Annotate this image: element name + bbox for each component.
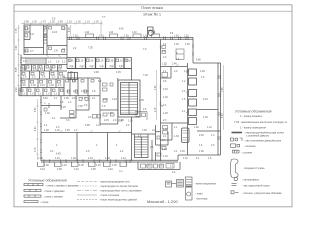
- block mid small cells: [44, 33, 48, 35]
- right wing lower walls: [161, 122, 188, 124]
- svg-text:1.30: 1.30: [38, 157, 43, 160]
- band3 walls: [21, 78, 64, 80]
- svg-text:- как отделочный порог: - как отделочный порог: [242, 184, 270, 188]
- right wing closet column wall: [187, 63, 189, 155]
- svg-text:1.30: 1.30: [109, 60, 114, 63]
- right wing stair glyph: [182, 128, 190, 143]
- svg-text:1.10: 1.10: [99, 35, 104, 37]
- tall stair symbol: [186, 177, 193, 200]
- dimension texts above facade: [73, 29, 189, 38]
- wall symbols column: [24, 184, 43, 203]
- hall top facade wall: [67, 37, 193, 39]
- left wing outer wall: [20, 55, 22, 96]
- svg-text:14.6: 14.6: [203, 98, 208, 101]
- bottom stair2: [135, 137, 149, 158]
- svg-text:- стена: - стена: [40, 201, 49, 204]
- window ticks left walls: [20, 46, 161, 153]
- svg-text:7.03 - максимальные жилетные п: 7.03 - максимальные жилетные площади, м: [234, 120, 287, 124]
- svg-text:2.30: 2.30: [78, 105, 83, 108]
- closet boxes: [189, 69, 197, 76]
- svg-text:1.48: 1.48: [200, 70, 205, 73]
- svg-text:3.20: 3.20: [155, 85, 157, 90]
- svg-text:2.15: 2.15: [155, 107, 157, 112]
- svg-text:1.30: 1.30: [44, 164, 49, 167]
- mid band dividers: [66, 55, 68, 69]
- svg-text:- ступени: - ступени: [241, 152, 253, 155]
- svg-text:1.30: 1.30: [105, 157, 110, 160]
- svg-text:1.10: 1.10: [163, 155, 168, 158]
- svg-text:1.30: 1.30: [124, 35, 129, 37]
- svg-text:1.10: 1.10: [109, 32, 114, 34]
- door swing marks: [46, 55, 189, 133]
- svg-text:2.95: 2.95: [24, 21, 29, 24]
- svg-text:Масштаб - 1:200: Масштаб - 1:200: [147, 199, 178, 204]
- block left small rooms: [29, 25, 31, 40]
- dims below bottom wall: [38, 153, 126, 174]
- lower-left wing left wall: [40, 96, 42, 161]
- svg-text:2.95: 2.95: [85, 124, 90, 127]
- svg-text:1.30: 1.30: [174, 135, 179, 138]
- svg-text:1.30: 1.30: [45, 112, 50, 115]
- mid rooms band bottom wall: [67, 68, 132, 70]
- svg-text:7.45: 7.45: [222, 87, 224, 92]
- svg-text:1.30: 1.30: [199, 150, 204, 153]
- svg-text:1.30: 1.30: [50, 21, 55, 24]
- svg-text:5.30: 5.30: [222, 113, 224, 118]
- svg-text:- колонна: - колонна: [244, 145, 256, 148]
- svg-text:- калориферы: - калориферы: [242, 177, 259, 181]
- svg-text:14.6: 14.6: [160, 139, 165, 142]
- stair band walls: [21, 57, 67, 59]
- svg-text:- стена с окнами и дверями: - стена с окнами и дверями: [45, 184, 79, 187]
- svg-text:3.10: 3.10: [74, 168, 79, 171]
- svg-text:2.8: 2.8: [54, 49, 58, 53]
- svg-text:1.10: 1.10: [184, 35, 189, 37]
- svg-text:- вентиляционная: - вентиляционная: [195, 182, 217, 185]
- svg-text:7.03: 7.03: [143, 74, 148, 77]
- svg-text:Этаж № 1: Этаж № 1: [143, 12, 162, 17]
- svg-text:1.30: 1.30: [32, 21, 37, 24]
- svg-text:1.10: 1.10: [121, 157, 126, 160]
- right legend symbols: [230, 133, 242, 194]
- svg-text:1.10: 1.10: [151, 32, 156, 34]
- main stair hatch: [121, 83, 138, 115]
- svg-text:3.10: 3.10: [108, 168, 113, 171]
- svg-text:7.05: 7.05: [88, 47, 93, 50]
- stair band hatch: [26, 59, 44, 65]
- main stair block: [118, 80, 140, 117]
- bottom rooms dividers: [76, 133, 78, 162]
- svg-text:- лестница: - лестница: [195, 197, 208, 200]
- lower corridor walls: [60, 96, 62, 110]
- rooms row y78-96: [64, 77, 100, 79]
- svg-text:4.7: 4.7: [30, 49, 34, 53]
- svg-text:5.40: 5.40: [43, 97, 48, 100]
- svg-text:1.30: 1.30: [31, 84, 36, 87]
- svg-text:1.10: 1.10: [183, 157, 188, 160]
- svg-text:2.95: 2.95: [57, 168, 62, 171]
- svg-text:2.06: 2.06: [139, 99, 144, 102]
- entry stair circle structure: [148, 27, 154, 30]
- svg-text:5.25: 5.25: [16, 67, 18, 72]
- svg-text:2.46: 2.46: [172, 63, 177, 66]
- svg-text:1.30: 1.30: [94, 21, 99, 24]
- band5 walls: [18, 88, 20, 96]
- mid band right wall down: [131, 58, 133, 81]
- bottom wing rooms top wall: [41, 132, 132, 134]
- wc cluster near right wing wall: [135, 112, 147, 121]
- svg-text:1.10: 1.10: [128, 120, 133, 123]
- svg-text:1.40: 1.40: [85, 32, 90, 34]
- svg-text:1.10: 1.10: [62, 164, 67, 167]
- dimension chain above block: [24, 16, 106, 24]
- bottom outer wall double: [41, 159, 178, 161]
- svg-text:1.30: 1.30: [64, 97, 69, 100]
- svg-text:- стена с окнами: - стена с окнами: [43, 196, 63, 199]
- svg-text:1.30: 1.30: [118, 120, 123, 123]
- svg-text:1.40: 1.40: [112, 98, 117, 101]
- svg-text:1.30: 1.30: [158, 165, 163, 168]
- svg-text:1.30: 1.30: [89, 60, 94, 63]
- svg-text:План этажа: План этажа: [141, 5, 163, 10]
- scattered labels and dims: [21, 43, 215, 174]
- dimension line with ticks: [17, 20, 223, 160]
- kitchen rooms: [156, 131, 161, 133]
- svg-text:2.15: 2.15: [40, 84, 45, 87]
- svg-text:1.10: 1.10: [96, 164, 101, 167]
- right wing top step walls: [192, 38, 194, 64]
- svg-text:с основной дверью: с основной дверью: [246, 134, 269, 138]
- svg-text:2.90: 2.90: [94, 71, 99, 74]
- svg-text:7.05: 7.05: [16, 28, 18, 33]
- svg-text:1.10: 1.10: [85, 21, 90, 24]
- top-left block outer wall: [24, 25, 67, 55]
- svg-text:1.30: 1.30: [112, 164, 117, 167]
- svg-text:1.30: 1.30: [162, 63, 167, 66]
- svg-text:1.30: 1.30: [49, 84, 54, 87]
- block left horizontal wall y47.5: [24, 47, 44, 49]
- rooms left of stair block: [117, 78, 119, 124]
- svg-text:1.30: 1.30: [73, 35, 78, 37]
- svg-text:- перегородки из легких бетоно: - перегородки из легких бетонов: [99, 184, 138, 188]
- full-width line under main title: [14, 10, 292, 12]
- svg-text:1.45: 1.45: [185, 43, 190, 46]
- svg-text:1.45: 1.45: [163, 112, 168, 115]
- svg-text:3.10: 3.10: [40, 168, 45, 171]
- room fixtures: [21, 27, 185, 169]
- svg-text:1.10: 1.10: [55, 157, 60, 160]
- block wall vertical x43.5: [43, 25, 45, 55]
- svg-text:1.30: 1.30: [174, 35, 179, 37]
- entrance step symbol: [230, 159, 238, 178]
- svg-text:2.95: 2.95: [91, 168, 96, 171]
- svg-text:1.30: 1.30: [96, 124, 101, 127]
- svg-text:1.45: 1.45: [61, 106, 66, 109]
- svg-text:1.10: 1.10: [88, 157, 93, 160]
- svg-text:- ниши перегородочных дверей: - ниши перегородочных дверей: [99, 198, 137, 202]
- svg-text:1.10: 1.10: [143, 35, 148, 37]
- bottom extension: [137, 162, 139, 169]
- block right horizontal wall y45.5: [47, 45, 67, 47]
- svg-text:2.15: 2.15: [163, 88, 168, 91]
- svg-text:1.30: 1.30: [126, 60, 131, 63]
- svg-text:1.45: 1.45: [116, 71, 121, 74]
- svg-text:- стена с дверями: - стена с дверями: [43, 190, 65, 193]
- svg-text:1 - номер помещения: 1 - номер помещения: [240, 126, 267, 130]
- svg-text:14.6: 14.6: [52, 30, 58, 34]
- window ticks hall facade: [70, 37, 189, 41]
- svg-text:П.03: П.03: [49, 102, 51, 108]
- svg-text:1.45: 1.45: [180, 150, 185, 153]
- kitchen corridor wall: [155, 125, 157, 145]
- stair2 hatch: [135, 140, 148, 155]
- svg-text:2.90: 2.90: [16, 87, 18, 92]
- svg-text:1.75: 1.75: [41, 21, 46, 24]
- mid rooms band top wall: [67, 57, 132, 59]
- svg-text:1.10: 1.10: [118, 60, 123, 63]
- svg-text:1.45: 1.45: [65, 129, 70, 132]
- svg-text:1.30: 1.30: [76, 21, 81, 24]
- svg-text:1 - номер комнаты: 1 - номер комнаты: [240, 114, 262, 118]
- svg-text:9.45: 9.45: [56, 153, 61, 156]
- right wing rooms divider: [197, 109, 218, 111]
- right wing outer right wall double: [217, 63, 219, 155]
- band4 walls: [21, 87, 64, 89]
- svg-text:1.30: 1.30: [79, 164, 84, 167]
- right stair glyph steps: [183, 131, 189, 141]
- svg-text:1.10: 1.10: [207, 126, 212, 129]
- svg-text:1.10: 1.10: [55, 129, 60, 132]
- svg-text:2.2: 2.2: [62, 27, 66, 31]
- band2 walls: [21, 70, 67, 72]
- svg-text:2.95: 2.95: [58, 21, 63, 24]
- svg-text:2.45: 2.45: [21, 84, 26, 87]
- window sill bumps below bottom wall: [38, 162, 127, 167]
- porch bump 1: [86, 34, 94, 38]
- svg-text:- стена строения: - стена строения: [99, 194, 120, 197]
- svg-text:7-6: 7-6: [30, 32, 34, 36]
- svg-text:- котельн, разгрузочная обшивк: - котельн, разгрузочная обшивка: [242, 191, 282, 195]
- dashed symbols column: [77, 182, 97, 200]
- window ticks right wall: [192, 45, 221, 139]
- block room labels: [25, 27, 66, 54]
- svg-text:1.30: 1.30: [142, 129, 147, 132]
- svg-text:1.10: 1.10: [79, 60, 84, 63]
- svg-text:- перегородочные сети с проема: - перегородочные сети с проемами: [99, 190, 142, 193]
- block wall vertical x47: [46, 25, 48, 55]
- svg-text:1.30: 1.30: [44, 129, 49, 132]
- svg-text:1.30: 1.30: [174, 43, 179, 46]
- svg-text:1.10: 1.10: [99, 60, 104, 63]
- svg-text:3.40: 3.40: [16, 45, 18, 50]
- svg-text:1.30: 1.30: [163, 96, 168, 99]
- svg-text:4.35: 4.35: [68, 71, 73, 74]
- svg-text:1.40: 1.40: [132, 32, 137, 34]
- svg-text:- как стеклянная дверь/витраж: - как стеклянная дверь/витраж: [244, 138, 281, 142]
- porch bump 2: [110, 34, 118, 38]
- svg-text:3.1: 3.1: [62, 47, 66, 51]
- svg-text:1.10: 1.10: [67, 21, 72, 24]
- svg-text:2.45: 2.45: [72, 97, 77, 100]
- svg-text:2.45: 2.45: [199, 134, 204, 137]
- window ticks bottom wall: [44, 159, 130, 163]
- border frame: [14, 5, 292, 207]
- svg-text:4.20: 4.20: [35, 126, 37, 131]
- svg-text:6.05: 6.05: [69, 27, 71, 32]
- entrance box right of band3: [68, 73, 78, 80]
- svg-text:6.45: 6.45: [119, 29, 124, 31]
- svg-text:1.30: 1.30: [203, 116, 208, 119]
- left rotated dims: [16, 27, 224, 152]
- svg-text:Условные обозначения: Условные обозначения: [28, 179, 67, 183]
- svg-text:- входная ступень: - входная ступень: [243, 167, 265, 170]
- svg-text:1.1: 1.1: [25, 49, 29, 53]
- svg-text:- лифт: - лифт: [195, 192, 204, 196]
- svg-text:1.40: 1.40: [194, 126, 199, 129]
- svg-text:3.15: 3.15: [35, 147, 37, 152]
- svg-text:2.15: 2.15: [103, 98, 108, 101]
- right wing upper room walls: [161, 66, 188, 68]
- svg-text:- аэрогазопроводная сеть: - аэрогазопроводная сеть: [99, 181, 131, 184]
- svg-text:2.15: 2.15: [104, 119, 109, 122]
- porch bump 4: [152, 34, 160, 38]
- svg-text:1.2: 1.2: [44, 41, 48, 45]
- svg-text:1.30: 1.30: [71, 157, 76, 160]
- svg-text:5.40: 5.40: [35, 107, 37, 112]
- svg-text:5.80: 5.80: [196, 59, 201, 62]
- svg-text:Условные обозначения: Условные обозначения: [235, 109, 272, 113]
- porch bump 3: [133, 34, 141, 38]
- right wing left wall: [160, 39, 162, 161]
